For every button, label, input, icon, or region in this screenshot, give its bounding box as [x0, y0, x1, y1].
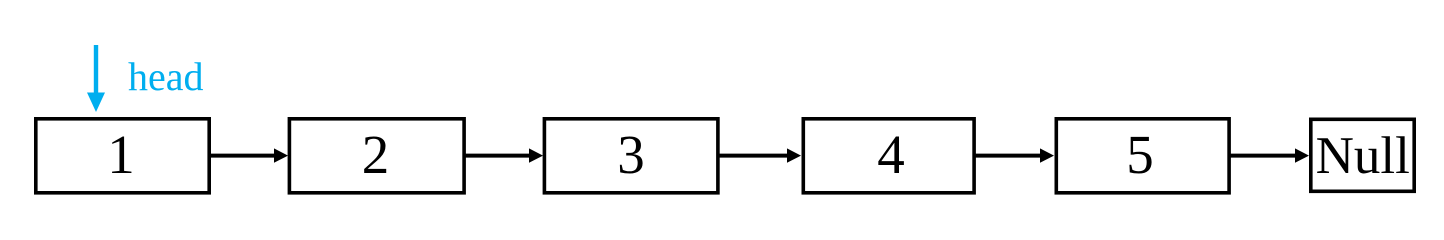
svg-text:4: 4 — [877, 124, 905, 185]
Null terminator box — [1311, 119, 1414, 191]
arrow node2 to node3 — [465, 148, 543, 162]
svg-text:head: head — [128, 54, 204, 99]
arrow node1 to node2 — [210, 148, 288, 162]
svg-text:Null: Null — [1316, 127, 1410, 185]
node 1 box — [36, 119, 209, 193]
arrow node3 to node4 — [719, 148, 801, 162]
svg-text:3: 3 — [617, 124, 645, 185]
node 4 box — [803, 119, 974, 193]
arrow node5 to Null — [1230, 148, 1309, 162]
head pointer arrow — [87, 45, 105, 112]
svg-text:2: 2 — [362, 124, 390, 185]
arrow node4 to node5 — [975, 148, 1054, 162]
node 5 box — [1056, 119, 1229, 193]
svg-text:5: 5 — [1126, 124, 1154, 185]
node 2 box — [289, 119, 464, 193]
svg-text:1: 1 — [107, 124, 135, 185]
node 3 box — [544, 119, 718, 193]
